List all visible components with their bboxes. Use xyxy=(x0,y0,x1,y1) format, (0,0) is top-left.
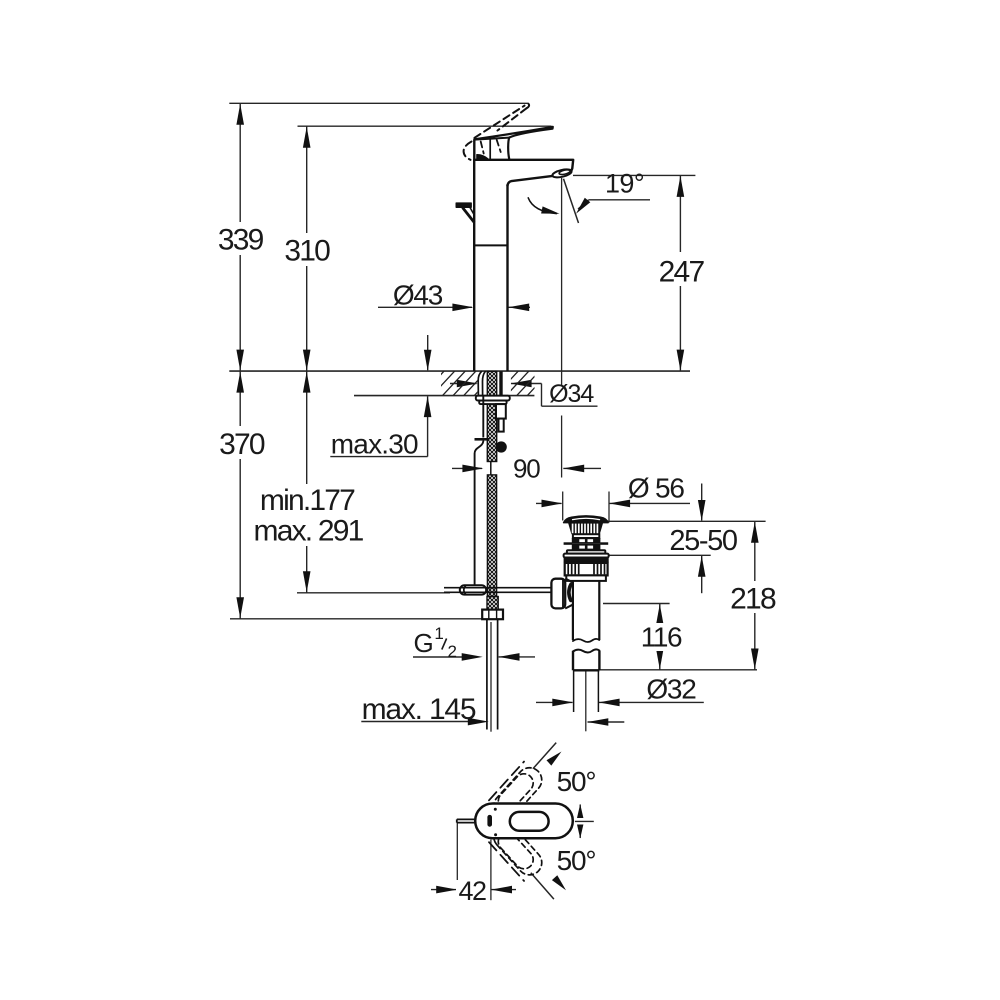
svg-text:50°: 50° xyxy=(557,845,596,876)
svg-text:2: 2 xyxy=(448,642,457,661)
svg-text:Ø32: Ø32 xyxy=(646,674,696,705)
svg-text:Ø 56: Ø 56 xyxy=(628,473,685,504)
svg-text:310: 310 xyxy=(284,234,330,267)
svg-text:50°: 50° xyxy=(557,766,596,797)
svg-text:max.30: max.30 xyxy=(331,429,418,460)
svg-text:116: 116 xyxy=(641,621,682,652)
svg-text:max. 145: max. 145 xyxy=(362,693,476,726)
svg-text:Ø43: Ø43 xyxy=(393,279,443,310)
svg-text:339: 339 xyxy=(218,223,264,256)
svg-text:218: 218 xyxy=(730,582,776,615)
svg-text:25-50: 25-50 xyxy=(669,525,736,557)
svg-text:G: G xyxy=(413,628,432,658)
svg-text:90: 90 xyxy=(513,454,540,484)
svg-text:Ø34: Ø34 xyxy=(549,380,594,408)
svg-text:19°: 19° xyxy=(605,168,644,198)
svg-text:42: 42 xyxy=(458,876,486,906)
svg-text:max. 291: max. 291 xyxy=(254,514,364,547)
svg-text:1: 1 xyxy=(434,624,443,643)
svg-text:min.177: min.177 xyxy=(260,484,355,517)
svg-text:247: 247 xyxy=(659,256,705,289)
svg-text:370: 370 xyxy=(219,428,265,461)
